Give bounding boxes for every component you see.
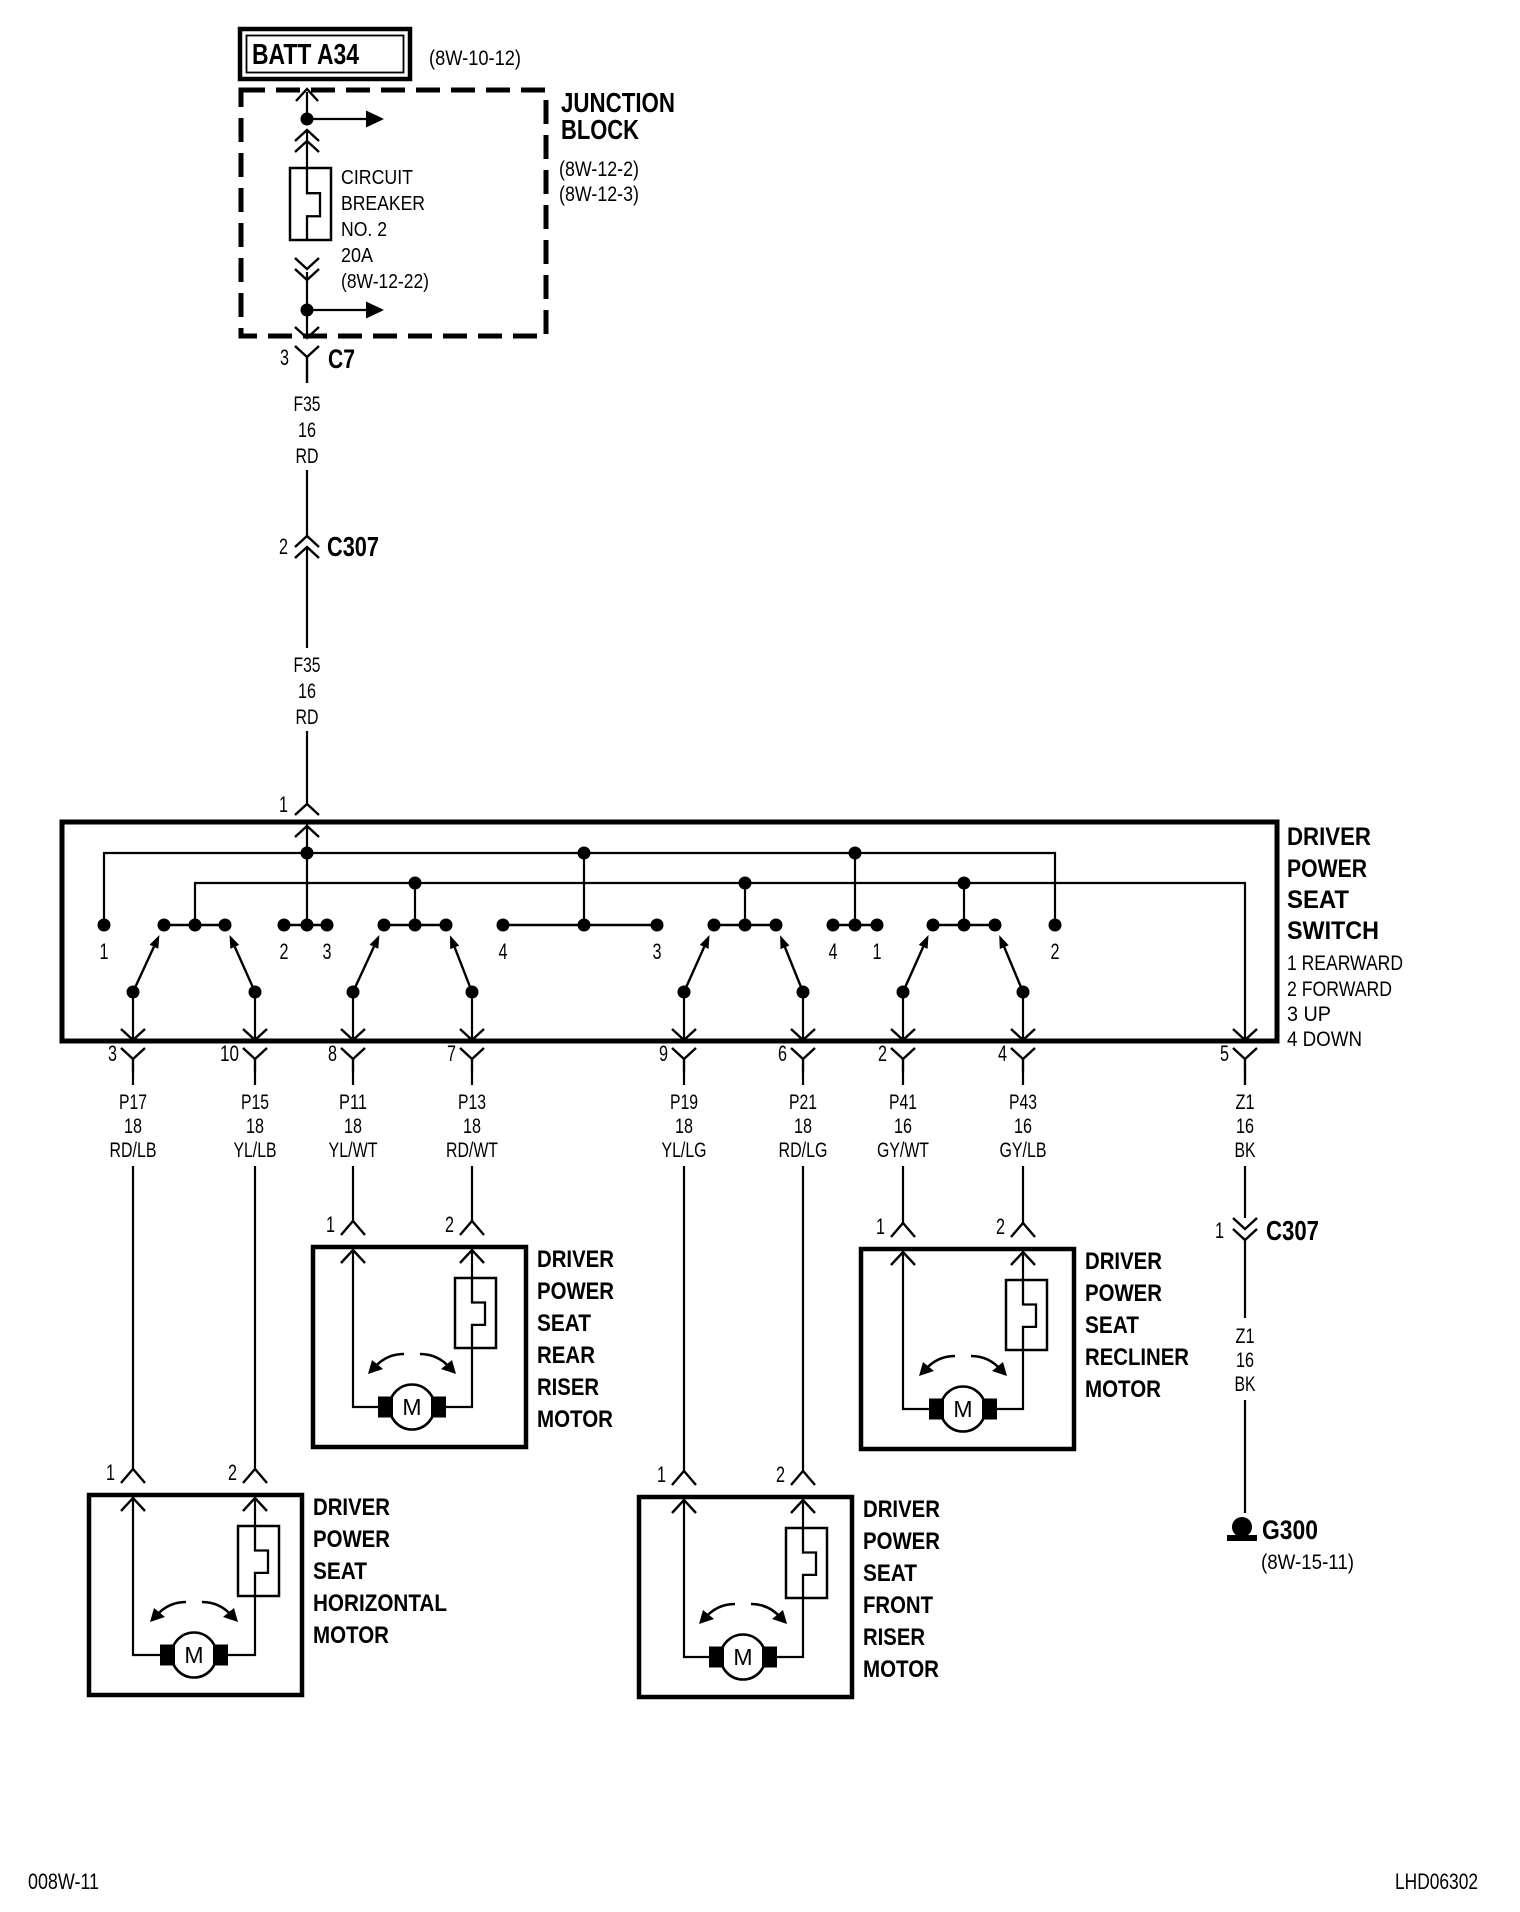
svg-text:16: 16 (1236, 1349, 1254, 1372)
dropper bus1 to 4-1 pair (854, 853, 856, 925)
svg-text:(8W-12-2): (8W-12-2) (559, 158, 639, 181)
connector C7 symbol (295, 346, 319, 357)
switch wiper pole 7 (466, 986, 479, 999)
wire below connector pin 6 (802, 1072, 804, 1085)
wire segment to seat switch (306, 731, 308, 804)
svg-text:RISER: RISER (537, 1374, 599, 1401)
svg-text:1: 1 (657, 1462, 666, 1487)
svg-text:2: 2 (279, 534, 288, 559)
svg-text:LHD06302: LHD06302 (1395, 1869, 1478, 1894)
svg-text:10: 10 (220, 1041, 239, 1066)
svg-text:2: 2 (996, 1214, 1005, 1239)
driver power seat recliner motor wiring (903, 1251, 929, 1409)
exit arrowhead pin 3 (121, 1029, 145, 1040)
driver power seat front riser motor wiring (684, 1499, 709, 1657)
svg-text:DRIVER: DRIVER (537, 1246, 614, 1273)
svg-text:4: 4 (998, 1041, 1007, 1066)
connector chevrons (up) above circuit breaker (295, 130, 319, 141)
node: junction dot lower (301, 304, 314, 317)
wire Z1 down to C307 (1244, 1072, 1246, 1085)
connector below pin 2 (891, 1048, 915, 1059)
svg-text:16: 16 (298, 680, 316, 703)
bus wire 2 (common rail) (195, 883, 1245, 1039)
exit arrowhead pin 5 (1233, 1029, 1257, 1040)
switch group A contacts (164, 924, 225, 927)
svg-text:YL/LB: YL/LB (234, 1139, 277, 1162)
svg-text:3: 3 (108, 1041, 117, 1066)
wire into C307 lower (1244, 1166, 1246, 1218)
entry wire into switch (306, 824, 308, 925)
svg-text:MOTOR: MOTOR (313, 1622, 389, 1649)
connector halves above driver power seat recliner motor (891, 1223, 915, 1237)
rotation arrows in driver power seat horizontal motor (156, 1602, 186, 1616)
driver power seat switch box (62, 822, 1277, 1041)
svg-text:1: 1 (279, 792, 288, 817)
svg-text:NO. 2: NO. 2 (341, 219, 387, 241)
svg-text:1: 1 (873, 939, 882, 964)
svg-text:G300: G300 (1262, 1515, 1318, 1545)
svg-text:4: 4 (499, 939, 508, 964)
svg-text:16: 16 (298, 419, 316, 442)
wire below connector pin 8 (352, 1072, 354, 1085)
svg-text:20A: 20A (341, 245, 374, 267)
svg-text:18: 18 (246, 1115, 264, 1138)
wire segment to C307 (306, 470, 308, 536)
wire below connector pin 2 (902, 1072, 904, 1085)
junction block dashed boundary (241, 90, 546, 336)
connector half (outside switch) (295, 804, 319, 815)
circuit breaker symbol (290, 168, 331, 240)
svg-text:P19: P19 (670, 1091, 698, 1114)
connector below pin 10 (243, 1048, 267, 1059)
svg-text:BK: BK (1235, 1373, 1256, 1396)
svg-text:BK: BK (1235, 1139, 1256, 1162)
arrowhead up at junction block top (296, 89, 318, 101)
dropper bus2 to group D (963, 883, 965, 925)
wire to junction block exit (306, 310, 308, 337)
wire from switch to driver power seat horizontal motor pin 1 (132, 1166, 134, 1469)
svg-text:18: 18 (344, 1115, 362, 1138)
svg-text:RD/LB: RD/LB (110, 1139, 157, 1162)
connector below pin 8 (341, 1048, 365, 1059)
svg-text:POWER: POWER (1287, 855, 1367, 883)
wire to lower junction dot (306, 272, 308, 310)
svg-text:BREAKER: BREAKER (341, 193, 425, 215)
wire below connector pin 7 (471, 1072, 473, 1085)
connector halves inside driver power seat front riser motor (672, 1500, 696, 1513)
svg-text:P21: P21 (789, 1091, 817, 1114)
wire from switch to driver power seat rear riser motor pin 2 (471, 1166, 473, 1221)
svg-text:2 FORWARD: 2 FORWARD (1287, 978, 1392, 1001)
driver power seat rear riser motor wiring (353, 1249, 378, 1407)
svg-text:POWER: POWER (313, 1526, 390, 1553)
switch wiper pole 6 (797, 986, 810, 999)
exit arrowhead pin 8 (341, 1029, 365, 1040)
driver power seat recliner motor box (861, 1249, 1074, 1449)
svg-text:1 REARWARD: 1 REARWARD (1287, 952, 1403, 975)
svg-text:SEAT: SEAT (1085, 1312, 1139, 1339)
svg-text:(8W-10-12): (8W-10-12) (429, 47, 521, 70)
connector below pin 6 (791, 1048, 815, 1059)
svg-text:2: 2 (228, 1460, 237, 1485)
wire from switch to driver power seat horizontal motor pin 2 (254, 1166, 256, 1469)
circuit breaker inside driver power seat horizontal motor (238, 1526, 279, 1596)
svg-text:8: 8 (328, 1041, 337, 1066)
connector half (inside switch) (295, 826, 319, 837)
svg-text:HORIZONTAL: HORIZONTAL (313, 1590, 447, 1617)
svg-text:F35: F35 (294, 654, 321, 677)
arrowhead down at junction block exit (295, 327, 319, 338)
svg-text:SEAT: SEAT (313, 1558, 367, 1585)
terminal 2 (right) (1049, 919, 1062, 932)
connector below pin 5 (1233, 1048, 1257, 1059)
svg-text:C7: C7 (328, 344, 355, 374)
dropper bus2 to group C (744, 883, 746, 925)
switch wiper pole 8 (347, 986, 360, 999)
wire segment below C307 (306, 548, 308, 648)
terminal 1 (leftmost) (98, 919, 111, 932)
motor M in driver power seat horizontal motor (172, 1633, 217, 1678)
svg-text:SEAT: SEAT (1287, 886, 1349, 914)
switch wiper pole 4 (1017, 986, 1030, 999)
exit arrowhead pin 9 (672, 1029, 696, 1040)
connector halves inside driver power seat recliner motor (891, 1252, 915, 1265)
svg-text:P11: P11 (339, 1091, 367, 1114)
svg-text:3: 3 (323, 939, 332, 964)
svg-text:M: M (953, 1396, 972, 1422)
dropper bus1 to 4-3 link (583, 853, 585, 925)
svg-text:POWER: POWER (1085, 1280, 1162, 1307)
wire below connector pin 10 (254, 1072, 256, 1085)
circuit breaker inside driver power seat recliner motor (1006, 1280, 1047, 1350)
svg-text:DRIVER: DRIVER (1287, 823, 1371, 851)
svg-text:16: 16 (1014, 1115, 1032, 1138)
driver power seat rear riser motor box (313, 1247, 526, 1447)
branch arrow right (upper) (313, 118, 368, 120)
svg-text:Z1: Z1 (1236, 1325, 1255, 1348)
svg-text:DRIVER: DRIVER (1085, 1248, 1162, 1275)
svg-text:DRIVER: DRIVER (313, 1494, 390, 1521)
svg-text:1: 1 (326, 1212, 335, 1237)
svg-text:2: 2 (280, 939, 289, 964)
svg-text:RD: RD (296, 706, 319, 729)
node: junction dot upper (301, 113, 314, 126)
connector C307 (lower) symbol (1233, 1218, 1257, 1229)
svg-text:MOTOR: MOTOR (1085, 1376, 1161, 1403)
svg-text:BATT A34: BATT A34 (252, 39, 359, 71)
terminals 4,1 pair (833, 924, 877, 927)
wire below connector pin 9 (683, 1072, 685, 1085)
svg-text:(8W-12-22): (8W-12-22) (341, 271, 429, 293)
svg-text:C307: C307 (327, 531, 379, 562)
svg-text:SEAT: SEAT (537, 1310, 591, 1337)
dropper bus2 to group B (414, 883, 416, 925)
svg-text:5: 5 (1220, 1041, 1229, 1066)
branch arrow right (lower) (313, 309, 368, 311)
bus wire 1 (battery feed rail) (104, 853, 1055, 925)
connector halves above driver power seat horizontal motor (121, 1469, 145, 1483)
node dots on bus 2 (409, 877, 422, 890)
wire from switch to driver power seat front riser motor pin 2 (802, 1166, 804, 1471)
svg-text:SWITCH: SWITCH (1287, 917, 1379, 945)
node dots on bus 1 (301, 847, 314, 860)
motor M in driver power seat front riser motor (721, 1635, 766, 1680)
switch wiper pole 10 (249, 986, 262, 999)
svg-text:1: 1 (100, 939, 109, 964)
wire below connector pin 5 (1244, 1072, 1246, 1085)
svg-text:DRIVER: DRIVER (863, 1496, 940, 1523)
svg-text:P15: P15 (241, 1091, 269, 1114)
svg-text:YL/LG: YL/LG (662, 1139, 707, 1162)
svg-text:1: 1 (876, 1214, 885, 1239)
connector halves inside driver power seat rear riser motor (341, 1250, 365, 1263)
svg-text:RECLINER: RECLINER (1085, 1344, 1189, 1371)
wire from BATT into junction block (306, 92, 308, 119)
svg-text:FRONT: FRONT (863, 1592, 933, 1619)
svg-text:Z1: Z1 (1236, 1091, 1255, 1114)
svg-text:(8W-15-11): (8W-15-11) (1261, 1551, 1354, 1574)
svg-text:9: 9 (659, 1041, 668, 1066)
svg-text:CIRCUIT: CIRCUIT (341, 167, 413, 189)
svg-text:2: 2 (776, 1462, 785, 1487)
svg-text:F35: F35 (294, 393, 321, 416)
exit arrowhead pin 6 (791, 1029, 815, 1040)
connector halves above driver power seat front riser motor (672, 1471, 696, 1485)
svg-text:M: M (733, 1644, 752, 1670)
exit arrowhead pin 7 (460, 1029, 484, 1040)
svg-text:(8W-12-3): (8W-12-3) (559, 183, 639, 206)
connector halves inside driver power seat horizontal motor (121, 1498, 145, 1511)
svg-text:REAR: REAR (537, 1342, 595, 1369)
svg-text:POWER: POWER (863, 1528, 940, 1555)
svg-text:C307: C307 (1266, 1215, 1319, 1246)
svg-text:BLOCK: BLOCK (561, 114, 639, 145)
rotation arrows in driver power seat recliner motor (925, 1356, 955, 1370)
connector below pin 3 (121, 1048, 145, 1059)
svg-text:P17: P17 (119, 1091, 147, 1114)
svg-text:16: 16 (894, 1115, 912, 1138)
svg-text:POWER: POWER (537, 1278, 614, 1305)
switch group B contacts (384, 924, 446, 927)
svg-text:P13: P13 (458, 1091, 486, 1114)
rotation arrows in driver power seat rear riser motor (374, 1354, 404, 1368)
exit arrowhead pin 4 (1011, 1029, 1035, 1040)
svg-text:7: 7 (447, 1041, 456, 1066)
svg-text:GY/LB: GY/LB (1000, 1139, 1047, 1162)
exit arrowhead pin 10 (243, 1029, 267, 1040)
svg-text:M: M (184, 1642, 203, 1668)
svg-text:MOTOR: MOTOR (537, 1406, 613, 1433)
svg-text:1: 1 (106, 1460, 115, 1485)
svg-text:18: 18 (124, 1115, 142, 1138)
svg-text:2: 2 (445, 1212, 454, 1237)
svg-text:18: 18 (794, 1115, 812, 1138)
svg-text:3: 3 (653, 939, 662, 964)
svg-text:RD: RD (296, 445, 319, 468)
svg-text:GY/WT: GY/WT (877, 1139, 929, 1162)
connector halves above driver power seat rear riser motor (341, 1221, 365, 1235)
svg-text:4: 4 (829, 939, 838, 964)
svg-text:RD/LG: RD/LG (779, 1139, 828, 1162)
terminals 4,3 link (503, 924, 657, 927)
wire below connector pin 3 (132, 1072, 134, 1085)
wire below connector pin 4 (1022, 1072, 1024, 1085)
svg-text:1: 1 (1215, 1218, 1224, 1243)
svg-text:P43: P43 (1009, 1091, 1037, 1114)
svg-text:MOTOR: MOTOR (863, 1656, 939, 1683)
wire from switch to driver power seat front riser motor pin 1 (683, 1166, 685, 1471)
terminals 2,3 pair (284, 924, 327, 927)
connector chevrons (down) below circuit breaker (295, 258, 319, 269)
svg-text:4 DOWN: 4 DOWN (1287, 1028, 1362, 1051)
connector below pin 4 (1011, 1048, 1035, 1059)
switch wiper pole 3 (127, 986, 140, 999)
switch group D contacts (933, 924, 995, 927)
svg-text:008W-11: 008W-11 (28, 1869, 99, 1894)
switch wiper pole 2 (897, 986, 910, 999)
wire below C307 lower (1244, 1240, 1246, 1318)
wire from switch to driver power seat recliner motor pin 1 (902, 1166, 904, 1223)
ground symbol G300 (1232, 1517, 1252, 1537)
connector below pin 7 (460, 1048, 484, 1059)
driver power seat horizontal motor box (89, 1495, 302, 1695)
wire from switch to driver power seat rear riser motor pin 1 (352, 1166, 354, 1221)
svg-text:M: M (402, 1394, 421, 1420)
connector below pin 9 (672, 1048, 696, 1059)
svg-text:RD/WT: RD/WT (446, 1139, 498, 1162)
svg-text:18: 18 (463, 1115, 481, 1138)
svg-text:3 UP: 3 UP (1287, 1003, 1331, 1026)
wire into circuit breaker (306, 131, 308, 168)
switch group C contacts (714, 924, 776, 927)
wire to ground G300 (1244, 1400, 1246, 1513)
connector C307 (upper) symbol (295, 536, 319, 547)
exit arrowhead pin 2 (891, 1029, 915, 1040)
svg-text:RISER: RISER (863, 1624, 925, 1651)
circuit breaker inside driver power seat rear riser motor (455, 1278, 496, 1348)
svg-text:3: 3 (280, 345, 289, 370)
circuit breaker inside driver power seat front riser motor (786, 1528, 827, 1598)
svg-text:2: 2 (1051, 939, 1060, 964)
svg-text:16: 16 (1236, 1115, 1254, 1138)
rotation arrows in driver power seat front riser motor (705, 1604, 735, 1618)
battery feed box BATT A34 (240, 29, 410, 79)
svg-text:2: 2 (878, 1041, 887, 1066)
svg-text:6: 6 (778, 1041, 787, 1066)
driver power seat horizontal motor wiring (133, 1497, 160, 1655)
svg-text:SEAT: SEAT (863, 1560, 917, 1587)
switch wiper pole 9 (678, 986, 691, 999)
wire from switch to driver power seat recliner motor pin 2 (1022, 1166, 1024, 1223)
svg-text:YL/WT: YL/WT (329, 1139, 378, 1162)
motor M in driver power seat recliner motor (941, 1387, 986, 1432)
driver power seat front riser motor box (639, 1497, 852, 1697)
motor M in driver power seat rear riser motor (390, 1385, 435, 1430)
svg-text:18: 18 (675, 1115, 693, 1138)
svg-text:P41: P41 (889, 1091, 917, 1114)
